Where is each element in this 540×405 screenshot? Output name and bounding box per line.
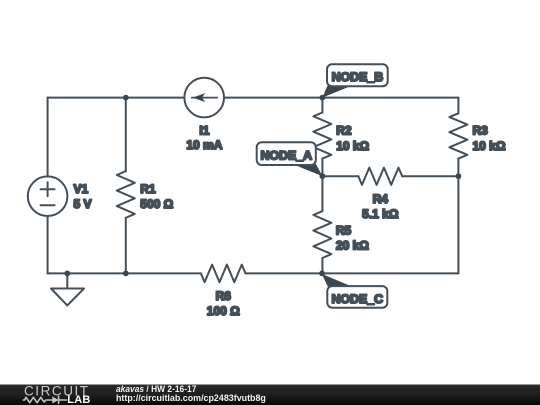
wire R5 top lead <box>321 176 323 211</box>
current source I1 circle <box>184 78 224 118</box>
svg-text:R5: R5 <box>336 224 352 238</box>
node NODE_B label box <box>327 64 388 86</box>
resistor R2 zigzag body <box>313 113 331 159</box>
wire R2 top lead <box>321 98 323 113</box>
svg-text:500 Ω: 500 Ω <box>140 197 173 211</box>
junction dot node C at R5 bottom <box>319 271 325 277</box>
wire R4 right lead <box>402 175 458 177</box>
junction dot at ground tap <box>64 271 70 277</box>
voltage source V1 plus sign <box>41 182 55 196</box>
svg-text:10 kΩ: 10 kΩ <box>336 139 369 153</box>
footer CircuitLab logo resistor squiggle and diode <box>23 397 66 404</box>
svg-text:V1: V1 <box>74 182 89 196</box>
junction dot at R1 bottom <box>123 271 129 277</box>
node NODE_C pointer wedge <box>322 274 352 287</box>
svg-text:NODE_C: NODE_C <box>331 292 383 306</box>
footer CircuitLab logo wordmark CIRCUIT <box>23 383 90 405</box>
svg-text:R2: R2 <box>336 124 352 138</box>
voltage source V1 circle <box>28 176 68 216</box>
wire left vertical lower (V1 minus terminal down to bottom-left corner) <box>47 216 49 273</box>
svg-text:10 mA: 10 mA <box>186 138 222 152</box>
junction dot at R3/R4 right <box>456 173 462 179</box>
svg-text:100 Ω: 100 Ω <box>207 304 240 318</box>
svg-text:10 kΩ: 10 kΩ <box>473 139 506 153</box>
resistor R4 zigzag body <box>358 168 402 185</box>
svg-text:R3: R3 <box>473 124 489 138</box>
wire left vertical upper (top-left corner down to V1 plus terminal) <box>47 98 49 177</box>
svg-text:5.1 kΩ: 5.1 kΩ <box>362 207 399 221</box>
resistor R3 zigzag body <box>449 113 467 158</box>
wire R3 top lead <box>457 98 459 114</box>
node NODE_B pointer wedge <box>322 86 352 98</box>
voltage source V1 minus sign <box>41 204 55 206</box>
resistor R5 zigzag body <box>313 211 331 258</box>
svg-text:5 V: 5 V <box>74 197 92 211</box>
wire R5 bottom lead <box>321 258 323 273</box>
svg-text:20 kΩ: 20 kΩ <box>336 239 369 253</box>
svg-text:R4: R4 <box>373 192 389 206</box>
wire R1 top lead <box>125 98 127 172</box>
resistor R1 zigzag body <box>117 171 135 218</box>
wire R4 left lead <box>322 175 358 177</box>
svg-text:I1: I1 <box>199 123 209 137</box>
wire right vertical (R3/R4 junction down to bottom-right corner) <box>457 176 459 273</box>
svg-text:R6: R6 <box>216 289 232 303</box>
footer attribution text akavas / HW 2-16-17 and circuit URL <box>116 385 276 404</box>
wire R1 bottom lead <box>125 218 127 274</box>
svg-text:LAB: LAB <box>67 394 90 405</box>
wire top-left horizontal (V1 top node to I1 left terminal) <box>48 97 185 99</box>
wire R2 bottom lead <box>321 159 323 177</box>
junction dot node A at R2/R4/R5 <box>320 173 326 179</box>
current source I1 arrow pointing left <box>192 93 218 102</box>
junction dot node B at R2 top <box>320 95 326 101</box>
wire R3 bottom lead <box>457 159 459 177</box>
svg-text:NODE_B: NODE_B <box>332 70 384 84</box>
svg-text:NODE_A: NODE_A <box>260 149 312 163</box>
node NODE_C label box <box>327 286 387 308</box>
wire bottom-left horizontal (bottom-left corner through ground and R1 junctions to R6 left lead) <box>48 272 201 274</box>
resistor R6 zigzag body <box>201 265 246 283</box>
wire top-right horizontal (I1 right terminal through NODE_B junction to top-right corner) <box>224 97 458 99</box>
node NODE_A label box <box>257 142 316 165</box>
svg-text:R1: R1 <box>140 182 156 196</box>
wire bottom-right horizontal (R6 right lead through NODE_C junction to bottom-right corner) <box>246 272 459 274</box>
ground symbol <box>51 273 84 305</box>
junction dot at R1 top on node B wire <box>123 95 129 101</box>
node NODE_A pointer wedge <box>292 164 323 176</box>
footer black bar <box>0 385 540 405</box>
